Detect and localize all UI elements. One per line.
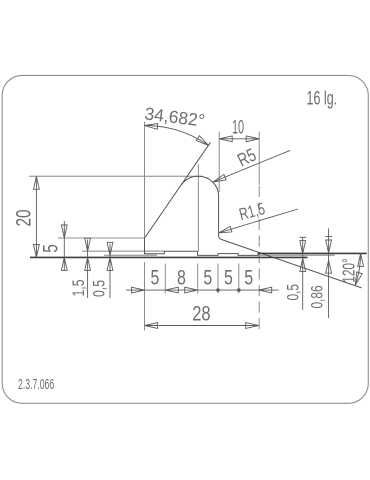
svg-text:16 lg.: 16 lg. — [307, 88, 338, 109]
svg-text:120°: 120° — [339, 258, 359, 283]
svg-text:0,5: 0,5 — [285, 284, 303, 301]
svg-text:8: 8 — [177, 265, 186, 289]
svg-text:20: 20 — [11, 209, 35, 226]
svg-text:1,5: 1,5 — [70, 279, 88, 296]
svg-text:5: 5 — [203, 265, 212, 289]
svg-text:10: 10 — [232, 118, 244, 139]
svg-text:0,5: 0,5 — [91, 280, 109, 297]
svg-text:5: 5 — [224, 265, 233, 289]
svg-text:5: 5 — [244, 265, 253, 289]
svg-text:5: 5 — [150, 265, 159, 289]
svg-text:0,86: 0,86 — [309, 285, 327, 308]
svg-text:5: 5 — [38, 244, 62, 253]
svg-text:28: 28 — [192, 302, 210, 326]
svg-text:2.3.7.066: 2.3.7.066 — [18, 376, 54, 393]
